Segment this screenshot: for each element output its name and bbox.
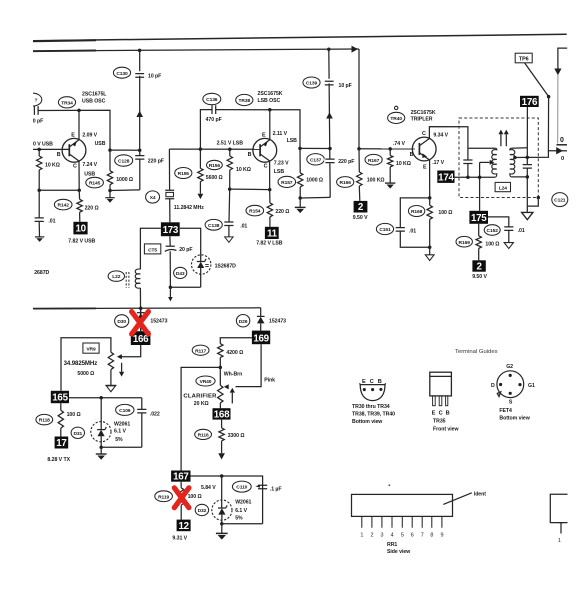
- wire: C139 branch vertical: [329, 49, 330, 197]
- label TR30 thru TR34 / TR38, TR39, TR40 / Bottom view: [352, 404, 395, 425]
- label 2SC1675K TRIPLER: [411, 110, 436, 123]
- ground (R168, open arrow): [425, 247, 434, 260]
- capacitor 220 pF C137: [324, 159, 336, 164]
- svg-text:7.23 V: 7.23 V: [274, 160, 289, 166]
- resistor 5600Ω (feedback divider): [198, 149, 203, 194]
- wire: shield to ground jog: [527, 198, 538, 207]
- svg-text:C110: C110: [236, 485, 247, 491]
- label E / 2.11 V / LSB (TR38 emitter): [262, 131, 297, 144]
- wire: 166 box to VR9 wiper: [122, 345, 141, 357]
- resistor R168 designator: [408, 206, 424, 217]
- capacitor C110 designator: [232, 481, 251, 492]
- ground (R167): [385, 183, 395, 189]
- capacitor C121 designator: [552, 193, 568, 207]
- wire: horizontal 10K-bottom to collector: [39, 189, 79, 191]
- svg-text:C139: C139: [306, 81, 318, 87]
- resistor 100 KΩ R166: [357, 149, 362, 201]
- ground (C152, open arrow): [504, 243, 513, 249]
- wire: D31 branch down: [100, 398, 102, 430]
- wire: 10K bottom to C138: [228, 189, 231, 222]
- svg-text:6: 6: [411, 532, 414, 538]
- svg-text:10: 10: [75, 224, 86, 235]
- ground (D31): [96, 447, 107, 459]
- svg-text:VR40: VR40: [200, 379, 212, 385]
- svg-text:169: 169: [253, 333, 269, 344]
- svg-text:LSB: LSB: [274, 169, 285, 175]
- node: D31 bottom: [99, 446, 103, 450]
- svg-text:167: 167: [173, 472, 189, 483]
- svg-text:5000 Ω: 5000 Ω: [77, 371, 94, 377]
- svg-text:2687D: 2687D: [34, 270, 49, 276]
- svg-text:CT5: CT5: [148, 247, 157, 253]
- ground (TR38 emitter): [295, 198, 306, 213]
- wire: 175 box right to C152: [488, 217, 509, 227]
- wire: secondary top: [511, 147, 527, 149]
- capacitor C128 designator: [115, 155, 133, 166]
- wire: C138 to ground: [228, 226, 230, 237]
- package outline RR1 side view: [352, 494, 453, 516]
- svg-text:3: 3: [381, 532, 384, 538]
- resistor R142 designator: [54, 199, 72, 210]
- wire: rail 2 corner down to TR40 base node: [358, 49, 360, 149]
- net box 12: [177, 520, 191, 532]
- svg-text:B: B: [410, 152, 414, 158]
- svg-text:.01: .01: [48, 219, 55, 225]
- svg-text:7.24 V: 7.24 V: [82, 162, 97, 168]
- node: TR40 base rail top: [357, 147, 361, 151]
- resistor R116 designator: [195, 429, 212, 439]
- node: TR38 emitter corner bottom: [298, 147, 302, 151]
- ground (TR34 bypass): [35, 237, 44, 242]
- svg-text:1: 1: [558, 538, 561, 544]
- potentiometer VR9 label box: [83, 343, 99, 353]
- label 2SC1675L USB OSC: [82, 92, 107, 105]
- node: R117 / VR40 / 167 junction: [219, 366, 223, 370]
- svg-text:0 V USB: 0 V USB: [33, 142, 53, 148]
- svg-text:C138: C138: [208, 223, 220, 229]
- transformer L24 primary winding: [492, 148, 497, 177]
- svg-text:L24: L24: [499, 186, 508, 192]
- node: TR34 emitter junction: [77, 109, 81, 113]
- wire: TR38 emitter vertical: [269, 110, 271, 140]
- ident pointer line: [443, 493, 472, 505]
- resistor R156 designator: [207, 160, 223, 169]
- wire: off-page entry at top right corner: [558, 48, 567, 68]
- label C / 7.23 V / LSB (TR38 collector): [264, 160, 289, 175]
- arrow down on off-page entry: [554, 69, 561, 76]
- wire: faint continuation down right edge: [557, 75, 559, 144]
- resistor 220Ω R142 (TR34 collector): [77, 190, 82, 222]
- crystal X4 designator: [146, 191, 160, 203]
- svg-text:LSB: LSB: [287, 138, 298, 144]
- node: emitter / R168 loop: [428, 196, 432, 200]
- wire: 174 box to tank: [455, 176, 468, 178]
- net box 17: [55, 437, 69, 450]
- node: R168 bottom: [428, 246, 432, 250]
- wire: link to C128 branch: [110, 149, 140, 151]
- wire: TR38 emitter top rail: [216, 110, 300, 149]
- svg-text:173: 173: [163, 225, 179, 236]
- node: base / R167 junction: [388, 147, 392, 151]
- package outline TR35 front view: [430, 372, 452, 405]
- svg-text:D30: D30: [117, 319, 126, 325]
- tiny mark above RR1: [389, 484, 391, 486]
- transistor TR34 designator: [58, 97, 75, 108]
- capacitor (tank, secondary): [523, 165, 532, 213]
- svg-text:R145: R145: [89, 181, 101, 187]
- svg-text:10 KΩ: 10 KΩ: [396, 161, 411, 167]
- resistor 1000Ω (TR34 emitter load): [107, 150, 112, 190]
- arrow: 5600Ω to off-page down: [198, 194, 204, 199]
- arrow: small ground arrow below node: [168, 287, 173, 301]
- net box 11: [265, 227, 279, 240]
- resistor R157 designator: [278, 176, 296, 187]
- net box 167: [171, 471, 190, 483]
- label E C B (bottom view): [362, 379, 382, 385]
- svg-text:E: E: [262, 133, 266, 139]
- svg-text:10 KΩ: 10 KΩ: [236, 167, 251, 173]
- wire: 173 box right to D43 branch: [180, 228, 201, 254]
- arrow: wiper of VR40: [224, 384, 229, 389]
- wire: link to C137 branch: [300, 147, 330, 149]
- zener diode D32 (W2061) in dashed circle: [212, 500, 232, 524]
- wire: 176 box down through tank: [526, 107, 528, 164]
- wire: D32 branch down: [221, 476, 223, 508]
- svg-text:TR30 thru TR34: TR30 thru TR34: [352, 404, 390, 410]
- svg-text:TRIPLER: TRIPLER: [411, 117, 433, 123]
- svg-text:20 pF: 20 pF: [179, 247, 192, 253]
- svg-text:10 pF: 10 pF: [339, 83, 352, 89]
- wire: collector down from TR38: [269, 161, 271, 190]
- svg-text:D: D: [491, 383, 495, 389]
- tap arrow into primary: [480, 160, 495, 165]
- ground (VR9 bottom, open): [105, 385, 116, 391]
- svg-text:C137: C137: [310, 157, 322, 163]
- capacitor C137 designator: [307, 154, 325, 165]
- node: junction rail2 / C139 branch: [327, 48, 331, 52]
- node: 10K bottom junction (TR38): [228, 187, 232, 191]
- svg-text:2.09 V: 2.09 V: [82, 132, 97, 138]
- arrow: adjustment direction (up): [230, 388, 235, 404]
- svg-text:Wh-Brn: Wh-Brn: [224, 372, 242, 378]
- label 2SC1675K LSB OSC: [258, 91, 283, 104]
- svg-text:4: 4: [391, 532, 394, 538]
- svg-text:R155: R155: [178, 171, 190, 177]
- net box 174: [437, 171, 454, 184]
- node: 1000Ω bottom: [108, 189, 112, 193]
- node: D32 branch top: [220, 474, 224, 478]
- wire: D43 bottom to node: [170, 286, 200, 288]
- wire: 167 box right rail: [191, 476, 263, 524]
- capacitor .1 µF C110: [256, 485, 268, 489]
- svg-text:5: 5: [401, 532, 404, 538]
- capacitor C151 designator: [376, 223, 393, 234]
- svg-text:R142: R142: [58, 203, 70, 209]
- svg-text:Bottom view: Bottom view: [499, 415, 530, 421]
- net box 168: [213, 408, 231, 420]
- resistor 100Ω R168: [427, 198, 432, 247]
- resistor 1000Ω (TR38 emitter load): [298, 148, 303, 198]
- svg-text:TR40: TR40: [390, 116, 402, 122]
- svg-text:.022: .022: [150, 411, 160, 417]
- svg-text:10 pF: 10 pF: [148, 73, 161, 79]
- svg-text:2SC1675L: 2SC1675L: [82, 92, 107, 98]
- node: C128 top junction: [108, 148, 112, 152]
- capacitor C152 designator: [484, 225, 500, 236]
- net box 169: [252, 331, 270, 345]
- svg-text:5%: 5%: [235, 516, 243, 522]
- wire: TR38 base: [169, 148, 259, 150]
- wire: output tap to right: [527, 151, 548, 158]
- svg-text:USB OSC: USB OSC: [82, 99, 106, 105]
- wire: secondary bottom: [511, 176, 527, 178]
- label W2061 6.1 V 5% (D32): [235, 500, 251, 522]
- label C / 9.34 V (TR40 collector): [422, 131, 449, 139]
- resistor 100Ω R119 (under red X): [179, 482, 184, 520]
- diode D31 designator: [71, 427, 84, 438]
- svg-text:2: 2: [477, 261, 483, 272]
- node: junction rail2 / C130 branch: [138, 49, 142, 53]
- svg-text:G1: G1: [528, 383, 535, 389]
- ground (C138, open arrow): [225, 237, 233, 242]
- wire: node to ground: [109, 191, 111, 198]
- wire: crystal to net box 173: [169, 199, 171, 223]
- svg-text:S: S: [509, 400, 513, 406]
- wire: tank left bottom: [468, 176, 495, 178]
- svg-text:L22: L22: [112, 274, 121, 280]
- red X over D30: [132, 312, 149, 334]
- svg-text:0: 0: [560, 137, 564, 144]
- svg-text:C152: C152: [487, 228, 499, 234]
- node: 1000Ω bottom (TR38): [298, 196, 302, 200]
- svg-text:C109: C109: [119, 408, 131, 414]
- capacitor C109 designator: [116, 404, 134, 415]
- label TR35 / Front view: [433, 419, 459, 433]
- net box 2 (R166): [354, 201, 368, 213]
- svg-text:11.2842 MHz: 11.2842 MHz: [174, 205, 204, 211]
- net box 166: [131, 331, 151, 345]
- resistor 10 KΩ (TR38 base): [227, 149, 232, 189]
- svg-text:.01: .01: [409, 228, 416, 234]
- wire: L22 down to mid rail and box 166: [139, 288, 141, 331]
- svg-text:R116: R116: [198, 433, 209, 439]
- svg-text:TR38, TR39, TR40: TR38, TR39, TR40: [352, 411, 395, 417]
- resistor R119 designator: [155, 491, 173, 502]
- svg-text:168: 168: [214, 409, 230, 420]
- capacitor C139 designator: [303, 77, 320, 88]
- resistor 220Ω (TR38 collector): [267, 190, 272, 227]
- svg-text:R167: R167: [368, 158, 380, 164]
- wire: loop bottom: [222, 523, 263, 525]
- capacitor .01 C152: [504, 227, 513, 243]
- wire: C130 branch vertical: [139, 50, 141, 150]
- svg-text:G2: G2: [506, 364, 513, 370]
- wire: C128 bottom to node: [110, 189, 140, 192]
- svg-text:0 pF: 0 pF: [33, 119, 43, 125]
- svg-text:1000 Ω: 1000 Ω: [116, 177, 133, 183]
- resistor R167 designator: [365, 154, 382, 165]
- svg-text:470 pF: 470 pF: [206, 117, 222, 123]
- svg-text:8.28 V TX: 8.28 V TX: [47, 457, 70, 463]
- node: base / 10K junction: [37, 148, 41, 152]
- red X over R119: [174, 488, 189, 508]
- svg-text:B: B: [248, 152, 252, 158]
- svg-text:Ident: Ident: [474, 491, 486, 497]
- svg-text:D31: D31: [73, 431, 82, 437]
- node: secondary tap: [513, 156, 517, 160]
- svg-text:8: 8: [430, 532, 433, 538]
- svg-text:RR1: RR1: [387, 542, 397, 548]
- svg-text:100 KΩ: 100 KΩ: [367, 177, 385, 183]
- svg-text:R118: R118: [39, 418, 50, 424]
- node: TR38 emitter junction: [268, 108, 272, 112]
- svg-text:12: 12: [179, 521, 190, 532]
- capacitor (cut) series input plates: [34, 106, 38, 115]
- svg-text:R166: R166: [340, 180, 352, 186]
- transistor TR38 symbol: [253, 138, 277, 162]
- zener diode D43 symbol in dashed circle: [192, 255, 211, 288]
- wire: VR9 top loop to box 165: [61, 338, 111, 391]
- svg-text:C: C: [439, 410, 443, 416]
- svg-text:2.51 V LSB: 2.51 V LSB: [217, 140, 244, 146]
- leads of RR1 (pins 1-9): [360, 517, 444, 528]
- trimmer capacitor CT5 label box: [144, 244, 160, 254]
- capacitor C130 plates: [134, 71, 146, 77]
- svg-text:C136: C136: [206, 97, 218, 103]
- svg-text:W2061: W2061: [235, 500, 251, 506]
- diode D29 symbol: [257, 316, 265, 330]
- svg-text:USB: USB: [95, 141, 106, 147]
- svg-text:D32: D32: [198, 508, 207, 514]
- svg-text:.01: .01: [240, 224, 247, 230]
- svg-text:R156: R156: [209, 163, 221, 169]
- svg-text:.17 V: .17 V: [432, 160, 444, 166]
- inductor L24 label box: [495, 182, 510, 191]
- transformer L24 secondary winding: [510, 148, 515, 177]
- wire: tank left top: [468, 147, 495, 149]
- net box 175: [469, 211, 488, 224]
- svg-text:B: B: [446, 410, 450, 416]
- svg-text:6.1 V: 6.1 V: [235, 508, 247, 514]
- svg-text:11: 11: [267, 228, 278, 239]
- package outline TO-92 bottom view: [360, 383, 386, 400]
- wire: cap to ground: [38, 221, 40, 236]
- svg-text:C: C: [422, 131, 426, 137]
- resistor R117 designator: [192, 345, 209, 355]
- node: tap crosses bottom wire: [478, 176, 482, 180]
- svg-text:Pink: Pink: [264, 378, 275, 384]
- net box 165: [51, 391, 69, 404]
- svg-text:5.84 V: 5.84 V: [201, 485, 216, 491]
- wire: 169 box left to R117: [220, 338, 252, 344]
- capacitor .01 C138: [224, 222, 233, 226]
- resistor 3300Ω R116: [219, 420, 224, 454]
- shield dashed box: [459, 118, 538, 198]
- capacitor 220 pF C128: [135, 150, 144, 190]
- inductor L22 designator: [108, 271, 124, 281]
- svg-text:220 Ω: 220 Ω: [275, 209, 289, 215]
- ground (D32): [216, 524, 228, 540]
- transistor TR38 designator: [236, 94, 253, 105]
- label FET4 / Bottom view: [499, 408, 530, 421]
- diode D43 designator: [174, 267, 187, 278]
- diode D29 branch corner from mid rail: [260, 308, 262, 316]
- svg-text:R117: R117: [195, 348, 206, 354]
- svg-text:165: 165: [52, 393, 68, 404]
- wire: mid rail: [33, 307, 261, 310]
- wire: R168 loop left side: [400, 198, 429, 227]
- capacitor C139 plates: [324, 79, 336, 85]
- svg-text:.74 V: .74 V: [393, 141, 405, 147]
- arrow: R116 to off-page down: [218, 453, 225, 459]
- potentiometer VR9 element 5000Ω: [108, 352, 113, 385]
- net box 173: [161, 222, 180, 236]
- svg-text:2: 2: [371, 532, 374, 538]
- node: base / 10K junction: [228, 147, 232, 151]
- svg-text:5%: 5%: [115, 437, 123, 443]
- svg-text:5600 Ω: 5600 Ω: [206, 175, 223, 181]
- transistor TR34 symbol: [62, 138, 86, 162]
- crystal X4 symbol: [165, 190, 174, 199]
- wire: horizontal 10K-bottom to collector (TR38): [230, 188, 270, 191]
- pin numbers 1-9: [360, 532, 443, 538]
- label E / 2.09 V / USB (TR34 emitter): [71, 132, 106, 146]
- node: secondary bottom junction: [526, 175, 530, 179]
- svg-text:152473: 152473: [269, 318, 286, 324]
- svg-text:1: 1: [360, 532, 363, 538]
- wire: 165 box right to zener loop: [69, 397, 142, 399]
- capacitor C130 designator: [113, 67, 130, 78]
- resistor R145 designator: [86, 177, 104, 188]
- label W2061 6.1 V 5% (D31): [114, 421, 130, 442]
- node: D32 bottom: [220, 522, 224, 526]
- arrow: wiper of VR9: [117, 354, 122, 359]
- svg-text:100 Ω: 100 Ω: [67, 412, 81, 418]
- partial package at lower right: [550, 494, 567, 544]
- node: tank left bottom: [466, 176, 470, 180]
- resistor R118 designator: [36, 414, 53, 424]
- wire: TR40 emitter down: [429, 160, 431, 198]
- svg-text:D43: D43: [176, 271, 185, 277]
- arrow on rail 2 toward corner: [352, 46, 358, 53]
- svg-text:VR9: VR9: [86, 347, 96, 353]
- svg-text:D29: D29: [239, 319, 248, 325]
- node: shield corner: [537, 196, 541, 200]
- svg-text:152473: 152473: [150, 318, 167, 324]
- svg-text:220 Ω: 220 Ω: [85, 206, 99, 212]
- wire: secondary tap to cap node: [515, 156, 527, 158]
- diode D32 designator: [195, 504, 208, 515]
- svg-text:100 Ω: 100 Ω: [188, 494, 202, 500]
- svg-text:USB: USB: [84, 171, 95, 177]
- svg-text:Bottom view: Bottom view: [352, 419, 383, 425]
- potentiometer VR40 element 20KΩ: [218, 367, 223, 408]
- wire: base corner down to crystal: [168, 149, 170, 190]
- transistor TR40 symbol: [412, 137, 436, 161]
- capacitor (tank, primary): [463, 148, 472, 177]
- svg-text:CLARIFIER: CLARIFIER: [183, 393, 217, 399]
- svg-text:100 Ω: 100 Ω: [438, 210, 452, 216]
- svg-text:Front view: Front view: [433, 426, 459, 432]
- label E / .17 V (TR40 emitter): [423, 160, 445, 171]
- svg-text:R168: R168: [411, 209, 423, 215]
- wire: junction left and down to box 167: [181, 367, 220, 470]
- svg-text:E: E: [423, 164, 427, 170]
- svg-text:17: 17: [56, 438, 67, 449]
- svg-text:2SC1675K: 2SC1675K: [411, 110, 436, 116]
- svg-text:C: C: [264, 163, 268, 169]
- node: C128 branch top: [138, 148, 142, 152]
